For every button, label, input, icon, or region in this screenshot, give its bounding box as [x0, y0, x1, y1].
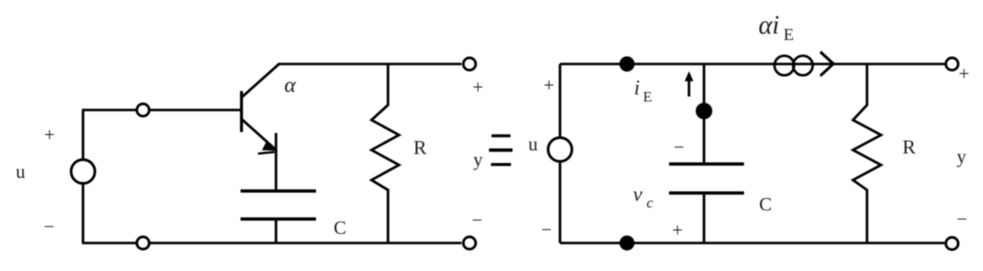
wire: left rail top segment (right circuit) — [559, 64, 562, 138]
svg-text:R: R — [413, 137, 427, 159]
controlled current source alpha*i_E — [775, 56, 813, 76]
svg-text:+: + — [44, 125, 55, 146]
label + (right source polarity) — [544, 76, 555, 97]
svg-text:y: y — [957, 147, 967, 168]
wire: left rail top segment (source to top wire corner) — [82, 110, 85, 160]
label C (left capacitor) — [334, 218, 347, 239]
svg-text:E: E — [643, 90, 652, 106]
node: output terminal bottom (right circuit) — [946, 237, 958, 249]
label i_E (emitter current) — [634, 76, 652, 106]
svg-text:u: u — [16, 162, 26, 183]
capacitor C (right) bottom plate — [669, 191, 744, 194]
transistor Q1 collector — [242, 64, 280, 98]
node: output terminal top (right circuit) — [946, 58, 958, 70]
wire: left rail bottom segment (right circuit) — [559, 161, 562, 243]
svg-text:−: − — [957, 210, 968, 231]
svg-text:C: C — [334, 218, 347, 239]
svg-text:c: c — [647, 196, 654, 212]
wire: top rail (right circuit) — [560, 63, 945, 66]
wire: left rail bottom segment (source to bottom rail corner) — [82, 184, 85, 243]
label y (left output) — [473, 150, 483, 171]
label v_c (capacitor voltage) — [633, 182, 654, 212]
wire: emitter vertical lead down to capacitor — [275, 133, 278, 191]
wire: capacitor bottom lead (right) — [703, 193, 706, 243]
junction dot on capacitor branch — [696, 103, 713, 120]
label R (left resistor) — [413, 137, 427, 159]
label − (right output) — [957, 210, 968, 231]
label alpha (transistor gain) — [284, 72, 296, 97]
node: output terminal top (left circuit) — [463, 58, 475, 70]
node: open terminal on bottom rail (left) — [137, 237, 149, 249]
wire: capacitor branch upper lead — [703, 64, 706, 164]
svg-text:+: + — [959, 64, 970, 85]
label u (right source) — [528, 135, 538, 156]
transistor Q1 base bar — [240, 91, 243, 132]
label − (left source polarity) — [44, 217, 55, 238]
wire: top rail (left circuit, collector to output terminal) — [278, 63, 462, 66]
label − (right source polarity) — [541, 220, 552, 241]
svg-text:v: v — [633, 182, 643, 206]
capacitor C (left) bottom plate — [241, 217, 317, 220]
svg-text:E: E — [784, 25, 794, 44]
svg-text:R: R — [902, 137, 916, 159]
label − (capacitor top polarity) — [674, 138, 685, 159]
svg-text:−: − — [472, 211, 483, 232]
svg-text:u: u — [528, 135, 538, 156]
current direction arrow (up) — [685, 71, 694, 96]
label R (right resistor) — [902, 137, 916, 159]
node: output terminal bottom (left circuit) — [463, 237, 475, 249]
capacitor C (left) top plate — [241, 189, 317, 192]
label alpha i_E (controlled source) — [759, 11, 794, 45]
svg-text:αi: αi — [759, 11, 780, 40]
label u (left source) — [16, 162, 26, 183]
label + (right output) — [959, 64, 970, 85]
wire: bottom rail (right circuit) — [560, 242, 945, 245]
label + (left source polarity) — [44, 125, 55, 146]
voltage source u (left) — [71, 160, 95, 184]
svg-text:i: i — [634, 76, 640, 100]
label − (left output) — [472, 211, 483, 232]
svg-text:+: + — [473, 78, 484, 99]
svg-text:−: − — [541, 220, 552, 241]
node: open terminal on base wire — [137, 104, 149, 116]
svg-text:C: C — [759, 195, 772, 216]
arrow chevron (current source direction) — [820, 52, 833, 76]
svg-text:−: − — [44, 217, 55, 238]
label + (left output) — [473, 78, 484, 99]
label + (capacitor bottom polarity) — [672, 221, 683, 242]
svg-text:−: − — [674, 138, 685, 159]
wire: base wire (top wire from source to transistor base) — [82, 109, 241, 112]
svg-text:+: + — [672, 221, 683, 242]
label y (right output) — [957, 147, 967, 168]
junction dot on top rail — [619, 56, 634, 71]
junction dot on bottom rail — [620, 236, 635, 251]
transistor Q1 emitter with arrow — [242, 119, 277, 154]
wire: capacitor bottom lead to bottom rail — [275, 219, 278, 243]
capacitor C (right) top plate — [669, 162, 744, 165]
wire: bottom rail (left circuit) — [82, 242, 462, 245]
svg-text:+: + — [544, 76, 555, 97]
equivalence sign — [489, 134, 513, 166]
resistor R (right) — [853, 64, 881, 243]
label C (right capacitor) — [759, 195, 772, 216]
voltage source u (right) — [548, 138, 572, 162]
svg-text:y: y — [473, 150, 483, 171]
resistor R (left) — [372, 64, 400, 243]
svg-text:α: α — [284, 72, 296, 97]
